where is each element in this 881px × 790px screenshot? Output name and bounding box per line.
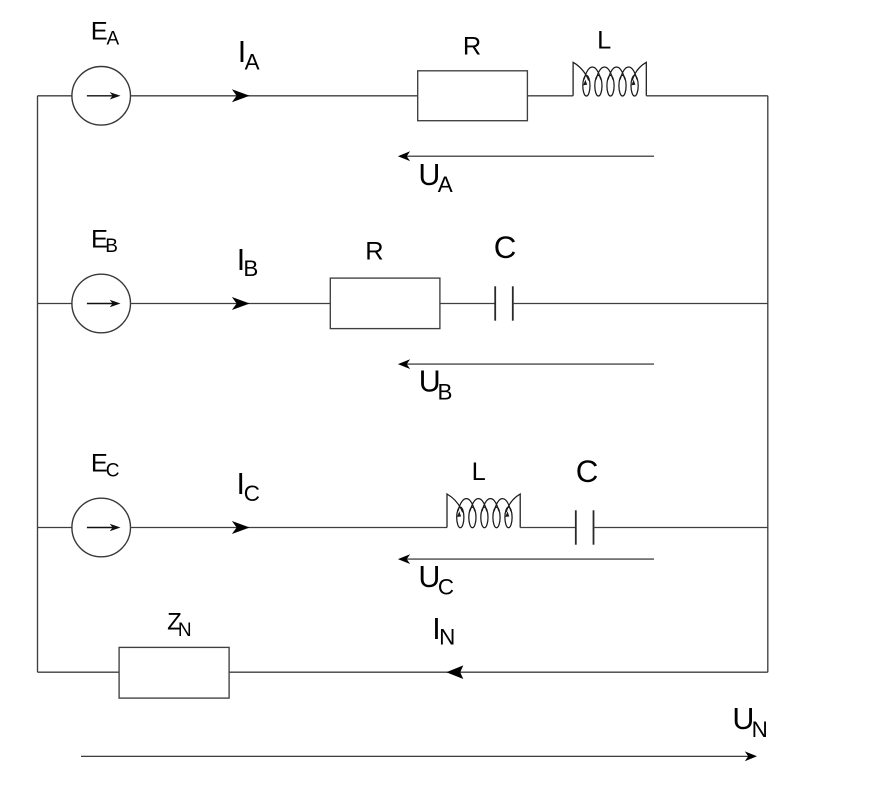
wire: phase B, left bus to source E_B: [38, 303, 73, 305]
svg-text:C: C: [106, 460, 120, 481]
wire: phase C, capacitor C to right bus: [594, 527, 768, 529]
voltage source E_B: [72, 274, 131, 333]
wire: phase A, left bus to source E_A: [38, 95, 73, 97]
voltage source E_A: [72, 67, 131, 126]
svg-text:E: E: [91, 18, 108, 46]
voltage arrow U_N (neutral shift): [81, 751, 757, 761]
current direction arrowhead I_C: [232, 521, 250, 534]
svg-text:A: A: [107, 29, 120, 50]
wire: right vertical bus: [767, 96, 769, 672]
wire: phase C, source E_C to inductor L: [130, 527, 447, 529]
svg-text:B: B: [243, 256, 258, 281]
svg-text:A: A: [438, 172, 453, 197]
wire: phase B, capacitor C to right bus: [513, 303, 768, 305]
wire: phase B, resistor R to capacitor C: [440, 303, 495, 305]
svg-text:N: N: [439, 625, 455, 650]
svg-text:R: R: [365, 238, 383, 266]
label E_B: [91, 226, 118, 257]
label E_C: [91, 450, 120, 482]
current direction arrowhead I_A: [232, 89, 250, 102]
capacitor C (phase C): [576, 510, 594, 544]
svg-text:C: C: [494, 230, 517, 265]
svg-text:B: B: [105, 236, 118, 257]
wire: phase C, inductor L to capacitor C: [520, 527, 576, 529]
voltage source E_C: [72, 498, 131, 557]
current direction arrowhead I_B: [232, 297, 250, 310]
svg-text:R: R: [463, 33, 481, 61]
svg-text:C: C: [438, 574, 454, 599]
label U_N: [732, 702, 767, 742]
label Z_N: [167, 609, 192, 641]
current direction arrowhead I_N: [446, 665, 463, 679]
label U_B: [419, 364, 453, 404]
wire: phase A, inductor L to right bus: [646, 95, 768, 97]
impedance Z_N: [119, 647, 229, 698]
wire: phase C, left bus to source E_C: [38, 527, 73, 529]
wire: left vertical bus: [37, 96, 39, 672]
wire: neutral, impedance Z_N to right bus: [229, 671, 768, 673]
svg-text:C: C: [576, 454, 599, 489]
label I_A: [238, 35, 260, 75]
inductor L (phase A): [573, 62, 646, 96]
label I_N: [432, 612, 455, 650]
label U_A: [418, 158, 452, 197]
wire: phase A, source E_A to resistor R: [130, 95, 417, 97]
svg-text:A: A: [245, 50, 260, 75]
svg-text:L: L: [597, 27, 611, 55]
voltage arrow U_C: [398, 554, 654, 564]
label I_C: [237, 467, 260, 506]
wire: phase A, resistor R to inductor L: [527, 95, 573, 97]
voltage arrow U_A: [398, 151, 654, 161]
voltage arrow U_B: [398, 359, 654, 369]
label I_B: [237, 243, 259, 281]
wire: neutral, left bus to impedance Z_N: [38, 671, 120, 673]
label U_C: [418, 560, 454, 599]
resistor R (phase A): [418, 71, 528, 121]
svg-text:L: L: [472, 458, 486, 486]
svg-text:C: C: [244, 481, 260, 506]
resistor R (phase B): [330, 278, 440, 329]
svg-text:N: N: [752, 717, 768, 742]
label E_A: [91, 18, 120, 50]
svg-text:N: N: [178, 620, 192, 641]
svg-text:B: B: [438, 379, 453, 404]
wire: phase B, source E_B to resistor R: [130, 303, 330, 305]
inductor L (phase C): [447, 494, 520, 528]
capacitor C (phase B): [495, 286, 513, 320]
